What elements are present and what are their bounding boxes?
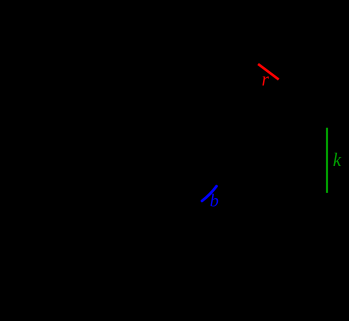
svg-text:b: b — [210, 190, 219, 210]
segment r (red highlight) — [258, 64, 279, 80]
svg-text:r: r — [262, 70, 270, 90]
segment k (green highlight) — [326, 128, 328, 193]
ray 2 of angle b (black, downward, ~84 deg) — [199, 183, 213, 312]
line k (black vertical) — [326, 112, 328, 210]
svg-text:k: k — [333, 151, 342, 171]
angle b arc (blue) — [202, 186, 217, 201]
vertex of angle b — [198, 182, 200, 184]
line through segment r (black, slope 3/4) — [232, 44, 305, 99]
ray 1 of angle b (black, toward lower-right, ~5 deg) — [199, 183, 340, 195]
